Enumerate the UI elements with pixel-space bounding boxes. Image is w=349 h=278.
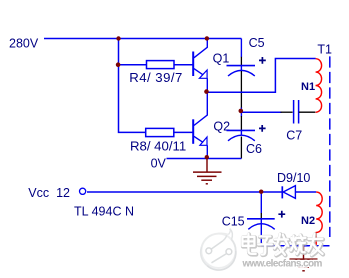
- junction dots: [116, 36, 264, 194]
- svg-text:R4/ 39/7: R4/ 39/7: [129, 70, 182, 85]
- wire C5/C6 node to C7: [241, 111, 281, 113]
- node dot R4 branch: [116, 62, 121, 67]
- node dot 0V ground: [205, 155, 209, 159]
- wire top rail 280V: [44, 38, 241, 40]
- capacitor C6: [227, 116, 266, 159]
- node dot Q1 emitter / Q2 collector: [204, 89, 209, 94]
- resistor R4: [147, 61, 175, 69]
- svg-text:C15: C15: [222, 215, 245, 229]
- wire R4 left lead: [119, 64, 147, 66]
- watermark logo circle: [201, 229, 236, 270]
- wire left branch vertical: [119, 39, 146, 133]
- svg-text:280V: 280V: [9, 37, 39, 51]
- svg-text:0V: 0V: [151, 156, 167, 170]
- ground symbol under Q2: [193, 159, 222, 184]
- capacitor C5: [227, 36, 266, 117]
- diode D9/10: [277, 171, 316, 198]
- wire output bottom rail: [261, 245, 329, 247]
- resistor R8: [146, 128, 174, 136]
- node dot 280V/Q1 collector: [205, 36, 209, 40]
- svg-text:N2: N2: [301, 215, 315, 227]
- transformer core dashed line: [329, 56, 331, 237]
- transformer secondary winding N2: [316, 192, 322, 246]
- node dot Vcc/C15: [259, 190, 263, 194]
- transistor Q2: [193, 92, 230, 158]
- svg-text:C5: C5: [249, 36, 265, 50]
- svg-text:C7: C7: [286, 129, 302, 143]
- svg-text:R8/ 40/11: R8/ 40/11: [130, 139, 186, 154]
- ground symbol output: [290, 246, 318, 271]
- svg-text:TL 494C N: TL 494C N: [74, 205, 134, 219]
- svg-text:C6: C6: [246, 142, 262, 156]
- wire 0V rail: [167, 158, 242, 160]
- svg-text:www.elecfans.com: www.elecfans.com: [242, 258, 323, 269]
- wire R8 right lead to Q2 base: [174, 131, 193, 133]
- transformer primary winding N1: [316, 59, 322, 113]
- node dot 280V/left branch: [116, 36, 120, 40]
- wire R4 to Q1 base: [174, 64, 193, 66]
- capacitor C7: [286, 100, 315, 143]
- node dot C5/C6: [239, 109, 244, 114]
- watermark chinese text: [242, 234, 323, 256]
- capacitor C15: [222, 192, 286, 246]
- svg-text:D9/10: D9/10: [277, 171, 310, 185]
- svg-text:Vcc 12: Vcc 12: [28, 186, 70, 200]
- svg-text:N1: N1: [301, 81, 315, 93]
- transistor Q1: [193, 39, 229, 93]
- svg-text:T1: T1: [317, 43, 332, 57]
- svg-text:Q2: Q2: [213, 120, 230, 134]
- wire Vcc rail to diode: [87, 191, 282, 193]
- wire Q1 emitter to transformer N1 top: [207, 59, 315, 93]
- svg-text:Q1: Q1: [213, 52, 230, 66]
